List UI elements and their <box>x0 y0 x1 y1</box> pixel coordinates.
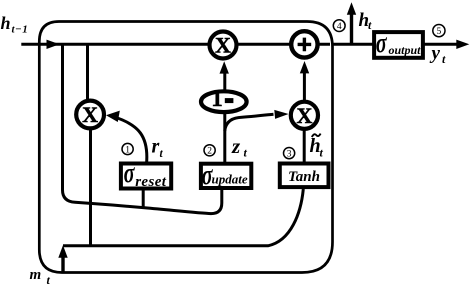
svg-text:t: t <box>442 52 446 66</box>
svg-text:3: 3 <box>287 150 292 160</box>
svg-text:X: X <box>82 102 98 127</box>
svg-text:update: update <box>212 172 248 187</box>
svg-text:X: X <box>215 33 231 58</box>
svg-text:m: m <box>30 267 42 283</box>
svg-text:t: t <box>47 273 51 285</box>
svg-text:t: t <box>244 146 248 160</box>
svg-text:t−1: t−1 <box>12 24 29 36</box>
svg-text:y: y <box>430 43 441 64</box>
svg-text:t: t <box>368 18 372 32</box>
svg-text:t: t <box>320 146 324 160</box>
svg-text:2: 2 <box>207 147 212 157</box>
svg-text:σ: σ <box>376 28 388 59</box>
svg-text:reset: reset <box>135 174 167 190</box>
svg-text:output: output <box>389 43 422 57</box>
svg-text:1: 1 <box>211 86 223 111</box>
svg-text:X: X <box>296 103 312 128</box>
svg-text:4: 4 <box>337 22 342 32</box>
svg-text:5: 5 <box>437 27 442 37</box>
svg-text:σ: σ <box>124 158 136 189</box>
svg-text:r: r <box>152 136 160 158</box>
svg-text:1: 1 <box>125 145 130 155</box>
svg-text:Tanh: Tanh <box>288 169 320 185</box>
svg-text:z: z <box>231 134 241 158</box>
svg-text:h: h <box>1 13 11 33</box>
svg-text:t: t <box>160 148 164 160</box>
